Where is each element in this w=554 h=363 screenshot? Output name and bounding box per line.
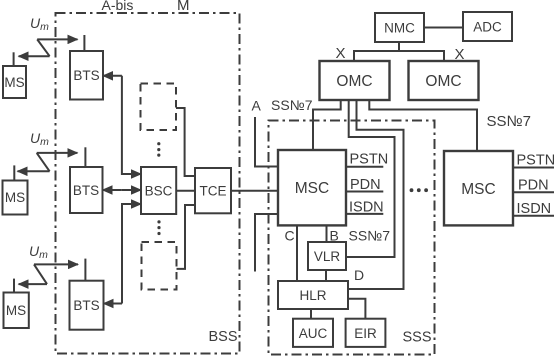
svg-text:SS№7: SS№7 bbox=[487, 113, 531, 130]
svg-text:HLR: HLR bbox=[299, 288, 326, 303]
svg-text:PDN: PDN bbox=[518, 178, 549, 194]
svg-text:A-bis: A-bis bbox=[102, 0, 134, 13]
wire BTS3 to BSC bbox=[104, 303, 123, 305]
antenna BTS2 bbox=[84, 147, 86, 167]
box BTS2 bbox=[70, 167, 103, 213]
wire B MSC1-VLR bbox=[326, 225, 328, 242]
svg-text:PDN: PDN bbox=[350, 177, 381, 193]
box MS3 bbox=[4, 293, 29, 329]
wire OMC1-MSC2 bbox=[369, 100, 477, 151]
radio link zigzag row3 bbox=[34, 263, 78, 265]
svg-text:OMC: OMC bbox=[336, 73, 372, 90]
svg-text:X: X bbox=[455, 46, 465, 63]
wire BSC-TCE bbox=[176, 190, 195, 192]
wire A interface bbox=[255, 117, 278, 167]
box BTS3 bbox=[70, 281, 104, 330]
wire VLR-HLR bbox=[325, 270, 327, 281]
svg-text:C: C bbox=[285, 228, 295, 244]
phantom BTS upper (dashed) bbox=[141, 84, 177, 131]
svg-text:Um: Um bbox=[30, 15, 49, 33]
svg-text:BTS: BTS bbox=[73, 183, 99, 198]
dots above BSC bbox=[157, 142, 160, 157]
ISDN line MSC1 bbox=[346, 213, 383, 215]
antenna MS2 bbox=[13, 165, 15, 180]
svg-text:SSS: SSS bbox=[403, 330, 432, 346]
svg-text:NMC: NMC bbox=[384, 21, 415, 36]
box NMC bbox=[375, 13, 424, 42]
wire NMC-ADC bbox=[424, 27, 463, 29]
svg-text:TCE: TCE bbox=[200, 184, 227, 199]
svg-text:MS: MS bbox=[4, 75, 24, 90]
svg-text:OMC: OMC bbox=[425, 73, 461, 90]
wire OMC1-VLR (SS No7) bbox=[346, 100, 395, 257]
antenna MS3 bbox=[13, 279, 15, 293]
box AUC bbox=[293, 319, 333, 347]
box ADC bbox=[463, 12, 512, 41]
svg-text:MS: MS bbox=[6, 303, 26, 318]
wire NMC to OMCs bbox=[398, 42, 400, 51]
wire HLR-AUC bbox=[310, 309, 312, 319]
box BTS1 bbox=[70, 51, 103, 100]
BSS dash-dot boundary bbox=[56, 13, 240, 354]
wire MSC1 left lower stub bbox=[255, 214, 278, 272]
wire BTS1 to BSC bbox=[103, 75, 122, 77]
box MSC1 bbox=[278, 150, 346, 225]
box MSC2 bbox=[444, 151, 513, 225]
box OMC2 bbox=[409, 61, 479, 100]
wire C MSC1-HLR bbox=[296, 225, 298, 281]
antenna BTS3 bbox=[84, 259, 86, 281]
svg-text:BTS: BTS bbox=[73, 298, 99, 313]
svg-text:X: X bbox=[336, 45, 346, 62]
svg-text:SS№7: SS№7 bbox=[271, 97, 313, 113]
phantom BTS lower (dashed) bbox=[142, 242, 177, 290]
svg-text:MS: MS bbox=[5, 190, 25, 205]
svg-text:PSTN: PSTN bbox=[517, 153, 554, 169]
box HLR bbox=[278, 281, 348, 309]
SSS dash-dot boundary bbox=[269, 121, 435, 355]
wire TCE-MSC1 bbox=[231, 190, 278, 192]
svg-text:ADC: ADC bbox=[473, 20, 502, 35]
box TCE bbox=[195, 168, 231, 213]
wire HLR-EIR bbox=[348, 299, 365, 319]
svg-text:SS№7: SS№7 bbox=[349, 228, 391, 244]
svg-text:D: D bbox=[354, 267, 364, 283]
PSTN line MSC2 bbox=[513, 167, 554, 169]
svg-text:PSTN: PSTN bbox=[350, 152, 389, 168]
dots between MSCs bbox=[410, 188, 428, 192]
svg-text:B: B bbox=[330, 228, 339, 244]
wire phantom1-TCE bbox=[176, 108, 195, 176]
svg-text:VLR: VLR bbox=[314, 249, 341, 264]
wire BTS2-BSC double arrow bbox=[103, 189, 122, 191]
svg-text:BTS: BTS bbox=[73, 68, 99, 83]
svg-text:MSC: MSC bbox=[461, 181, 495, 198]
box VLR bbox=[308, 242, 346, 270]
wire OMC1-MSC1 bbox=[313, 100, 341, 150]
PSTN line MSC1 bbox=[346, 166, 383, 168]
svg-text:BSC: BSC bbox=[145, 184, 173, 199]
svg-text:Um: Um bbox=[29, 243, 48, 261]
ISDN line MSC2 bbox=[513, 215, 554, 217]
radio link zigzag row1 bbox=[37, 38, 77, 40]
radio link zigzag row2 bbox=[37, 152, 78, 154]
svg-text:ISDN: ISDN bbox=[517, 201, 552, 217]
wire OMC1-HLR (D) bbox=[348, 100, 404, 289]
svg-text:M: M bbox=[177, 0, 190, 14]
box EIR bbox=[346, 319, 386, 347]
svg-text:ISDN: ISDN bbox=[349, 200, 384, 216]
antenna BTS1 bbox=[83, 35, 85, 51]
box MS2 bbox=[3, 181, 28, 215]
svg-text:BSS: BSS bbox=[209, 329, 238, 345]
svg-text:EIR: EIR bbox=[354, 326, 377, 341]
svg-text:MSC: MSC bbox=[295, 180, 329, 197]
antenna MS1 bbox=[13, 52, 15, 66]
PDN line MSC1 bbox=[346, 191, 383, 193]
svg-text:A: A bbox=[252, 98, 262, 114]
svg-text:Um: Um bbox=[30, 130, 49, 148]
PDN line MSC2 bbox=[513, 191, 554, 193]
dots below BSC bbox=[157, 220, 160, 235]
wire phantom2-TCE bbox=[177, 205, 196, 269]
svg-text:AUC: AUC bbox=[299, 326, 328, 341]
box MS1 bbox=[3, 66, 26, 98]
box BSC bbox=[141, 167, 176, 214]
box OMC1 bbox=[320, 61, 390, 100]
